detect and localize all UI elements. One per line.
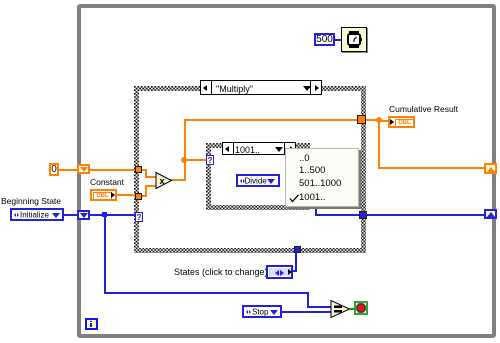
svg-text:x: x (160, 176, 165, 186)
